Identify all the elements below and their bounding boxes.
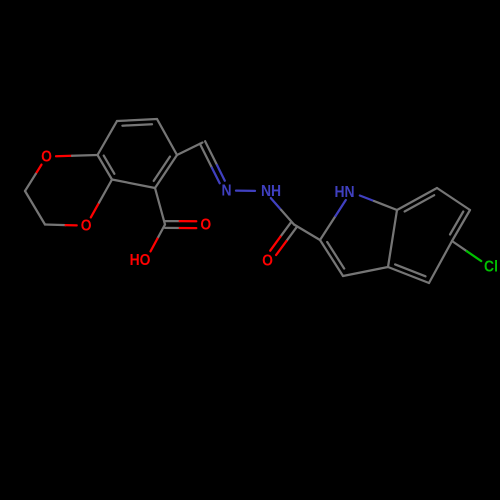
aromatic double bond C2-C3 (320, 240, 344, 276)
svg-text:O: O (200, 216, 211, 234)
aromatic double bond C4a-C8a (98, 155, 115, 180)
bond C3-C3a (343, 267, 388, 276)
bond O1-CH2a (25, 165, 42, 191)
svg-text:Cl: Cl (484, 257, 498, 275)
bond C2-Nind (320, 200, 346, 240)
double bond Cch=N1 (200, 141, 225, 183)
aromatic bond X2-X3 (157, 119, 177, 155)
bond acidC-OH (151, 225, 166, 252)
svg-text:O: O (81, 217, 92, 235)
aromatic double bond C6-C5 (450, 210, 470, 241)
aromatic bond X4-C4a (112, 180, 155, 189)
bond Nind-C7a (360, 196, 397, 211)
double bond carbC=O (270, 222, 297, 255)
bond N1-N2 (236, 189, 255, 192)
aromatic bond C7-C6 (437, 188, 470, 210)
aromatic double bond C4-C3a (388, 264, 429, 283)
aromatic bond C5-C4 (429, 241, 452, 283)
double bond acidC=O (165, 221, 196, 228)
bond O1-C8a (56, 155, 98, 156)
aromatic double bond X3-X4 (154, 155, 177, 188)
svg-text:HN: HN (334, 183, 354, 201)
aromatic bond C8a-X1 (98, 121, 118, 155)
bond X4-acidC (155, 188, 165, 225)
bond X3-Cch (177, 143, 203, 156)
aromatic double bond C7a-C7 (397, 188, 437, 212)
bond N2-carbC (271, 198, 294, 224)
bond carbC-C2 (294, 225, 320, 241)
bond C5-Cl (452, 241, 481, 261)
svg-text:O: O (41, 147, 52, 165)
bond O2-C4a (91, 180, 112, 218)
svg-text:N: N (221, 181, 231, 199)
svg-text:HO: HO (130, 251, 151, 269)
bond CH2b-O2 (45, 223, 77, 226)
svg-text:NH: NH (261, 182, 281, 200)
svg-text:O: O (262, 251, 273, 269)
bond C3a-C7a (388, 210, 397, 267)
aromatic double bond X1-X2 (117, 119, 157, 126)
bond CH2a-CH2b (25, 191, 45, 225)
